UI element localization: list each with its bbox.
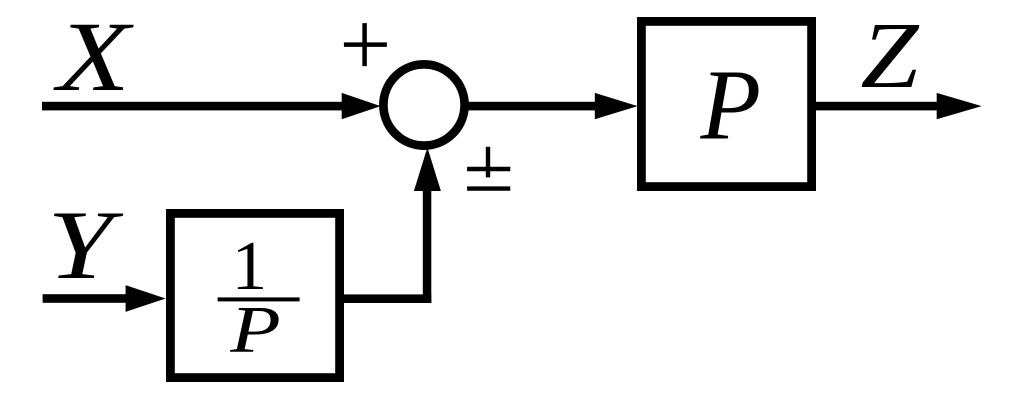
svg-text:P: P	[229, 293, 280, 367]
plus sign at summing input	[344, 23, 387, 66]
wire summing junction to block P	[461, 102, 598, 111]
arrowhead into summing junction bottom	[414, 148, 441, 192]
block P	[641, 21, 811, 186]
summing junction circle S1	[383, 64, 464, 145]
arrowhead into block 1/P	[126, 285, 166, 312]
svg-text:X: X	[53, 1, 134, 112]
wire block P to output	[812, 102, 940, 111]
wire X input	[42, 102, 345, 111]
plus-minus sign at summing bottom input	[467, 147, 510, 189]
block 1/P	[170, 213, 339, 377]
svg-text:Y: Y	[47, 191, 124, 300]
svg-text:P: P	[699, 48, 760, 160]
fraction bar	[218, 297, 300, 301]
output arrowhead Z	[937, 93, 982, 119]
wire 1/P output to corner	[344, 294, 431, 303]
wire riser to summing junction	[423, 191, 432, 303]
wire Y input	[43, 294, 129, 303]
arrowhead into summing junction	[342, 93, 381, 119]
arrowhead into block P	[595, 93, 638, 119]
svg-text:Z: Z	[860, 2, 920, 107]
